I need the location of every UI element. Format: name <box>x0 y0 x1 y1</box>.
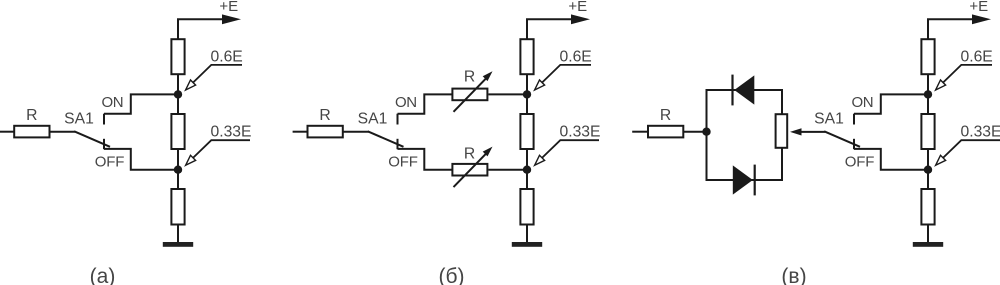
divider resistor top (a) <box>171 39 184 74</box>
wire: OFF contact to node (a) <box>104 149 178 170</box>
resistor R input (b) <box>308 126 343 138</box>
switch SA1 lever (a) <box>74 131 110 147</box>
wire: ON contact to node (b) <box>398 94 453 113</box>
wire: bridge top branch (v) <box>706 89 784 91</box>
label 0.33E with leader arrow (b) <box>535 124 601 166</box>
svg-text:SA1: SA1 <box>814 110 844 127</box>
wire: divider rail (v) <box>927 19 929 242</box>
ground (a) <box>163 242 193 247</box>
resistor R input (v) <box>648 126 683 138</box>
label 0.6E with leader arrow (v) <box>936 48 993 90</box>
divider resistor top (v) <box>921 39 934 74</box>
node 0.33E (a) <box>174 166 182 174</box>
wire: input left (a) <box>0 131 14 133</box>
switch ON contact tick (b) <box>397 114 399 125</box>
wire: input left (v) <box>632 131 648 133</box>
wire: resistor to switch pole (b) <box>344 131 369 133</box>
power +E arrow (b) <box>526 14 590 24</box>
svg-text:SA1: SA1 <box>64 110 94 127</box>
resistor R (a) <box>14 126 49 138</box>
svg-text:0.33E: 0.33E <box>961 124 1000 141</box>
node: bridge input junction (v) <box>702 128 710 136</box>
switch ON contact tick (a) <box>103 114 105 125</box>
label 0.33E with leader arrow (a) <box>186 124 252 166</box>
svg-text:0.33E: 0.33E <box>560 124 601 141</box>
wire: OFF contact to node (b) <box>398 149 453 170</box>
wire: OFF var resistor to node (b) <box>488 169 527 171</box>
power +E arrow (a) <box>177 14 241 24</box>
svg-text:ON: ON <box>395 94 417 111</box>
svg-text:+E: +E <box>568 0 587 15</box>
switch OFF contact tick (a) <box>103 139 105 149</box>
switch SA1 lever (v) <box>824 131 860 147</box>
switch SA1 lever (b) <box>368 131 404 147</box>
wiper arrow from SA1 (v) <box>790 128 825 135</box>
divider resistor bottom (v) <box>921 189 934 225</box>
svg-text:(а): (а) <box>90 265 116 285</box>
diode VD bottom (cathode right) (v) <box>733 165 755 196</box>
node 0.6E (v) <box>924 90 932 98</box>
svg-text:(в): (в) <box>781 265 806 285</box>
svg-text:+E: +E <box>219 0 238 15</box>
wire: bridge bottom branch (v) <box>706 179 784 181</box>
svg-text:+E: +E <box>969 0 988 15</box>
switch OFF contact tick (v) <box>853 139 855 149</box>
switch OFF contact tick (b) <box>397 139 399 149</box>
svg-text:OFF: OFF <box>845 153 874 170</box>
label 0.33E with leader arrow (v) <box>936 124 1000 166</box>
wire: bridge right vertical (v) <box>781 89 783 181</box>
svg-text:SA1: SA1 <box>358 110 388 127</box>
ground (v) <box>913 242 943 247</box>
svg-text:0.6E: 0.6E <box>560 48 592 65</box>
divider resistor bottom (a) <box>171 189 184 225</box>
svg-text:0.6E: 0.6E <box>961 48 993 65</box>
divider resistor bottom (b) <box>520 189 533 225</box>
divider resistor middle (v) <box>921 114 934 149</box>
wire: ON contact to node (a) <box>104 94 178 113</box>
variable resistor R (ON branch) (b) <box>452 71 492 112</box>
svg-text:ON: ON <box>101 94 123 111</box>
svg-text:R: R <box>464 145 475 162</box>
wire: input left (b) <box>293 131 308 133</box>
potentiometer body (v) <box>776 114 788 148</box>
ground (b) <box>512 242 542 247</box>
wire: divider rail (a) <box>177 19 179 242</box>
wire: ON contact to node (v) <box>854 94 928 113</box>
power +E arrow (v) <box>927 14 991 24</box>
svg-text:R: R <box>660 107 671 124</box>
node 0.6E (a) <box>174 90 182 98</box>
svg-text:OFF: OFF <box>95 153 124 170</box>
node 0.6E (b) <box>523 90 531 98</box>
svg-text:ON: ON <box>851 94 873 111</box>
divider resistor top (b) <box>520 39 533 74</box>
label 0.6E with leader arrow (b) <box>535 48 592 90</box>
switch ON contact tick (v) <box>853 114 855 125</box>
wire: divider rail (b) <box>526 19 528 242</box>
wire: resistor to switch pole (a) <box>50 131 75 133</box>
node 0.33E (b) <box>523 166 531 174</box>
svg-text:0.33E: 0.33E <box>211 124 252 141</box>
divider resistor middle (a) <box>171 114 184 149</box>
wire: resistor to bridge node (v) <box>684 131 710 133</box>
divider resistor middle (b) <box>520 114 533 149</box>
svg-text:(б): (б) <box>438 265 464 285</box>
wire: bridge left vertical (v) <box>706 90 708 180</box>
label 0.6E with leader arrow (a) <box>186 48 243 90</box>
svg-text:R: R <box>26 107 37 124</box>
svg-text:0.6E: 0.6E <box>211 48 243 65</box>
svg-text:R: R <box>319 107 330 124</box>
svg-text:R: R <box>464 68 475 85</box>
node 0.33E (v) <box>924 166 932 174</box>
diode VD top (cathode left) (v) <box>733 75 755 106</box>
variable resistor R (OFF branch) (b) <box>452 147 492 188</box>
wire: OFF contact to node (v) <box>854 149 928 170</box>
svg-text:OFF: OFF <box>388 153 417 170</box>
wire: ON var resistor to node (b) <box>488 93 527 95</box>
